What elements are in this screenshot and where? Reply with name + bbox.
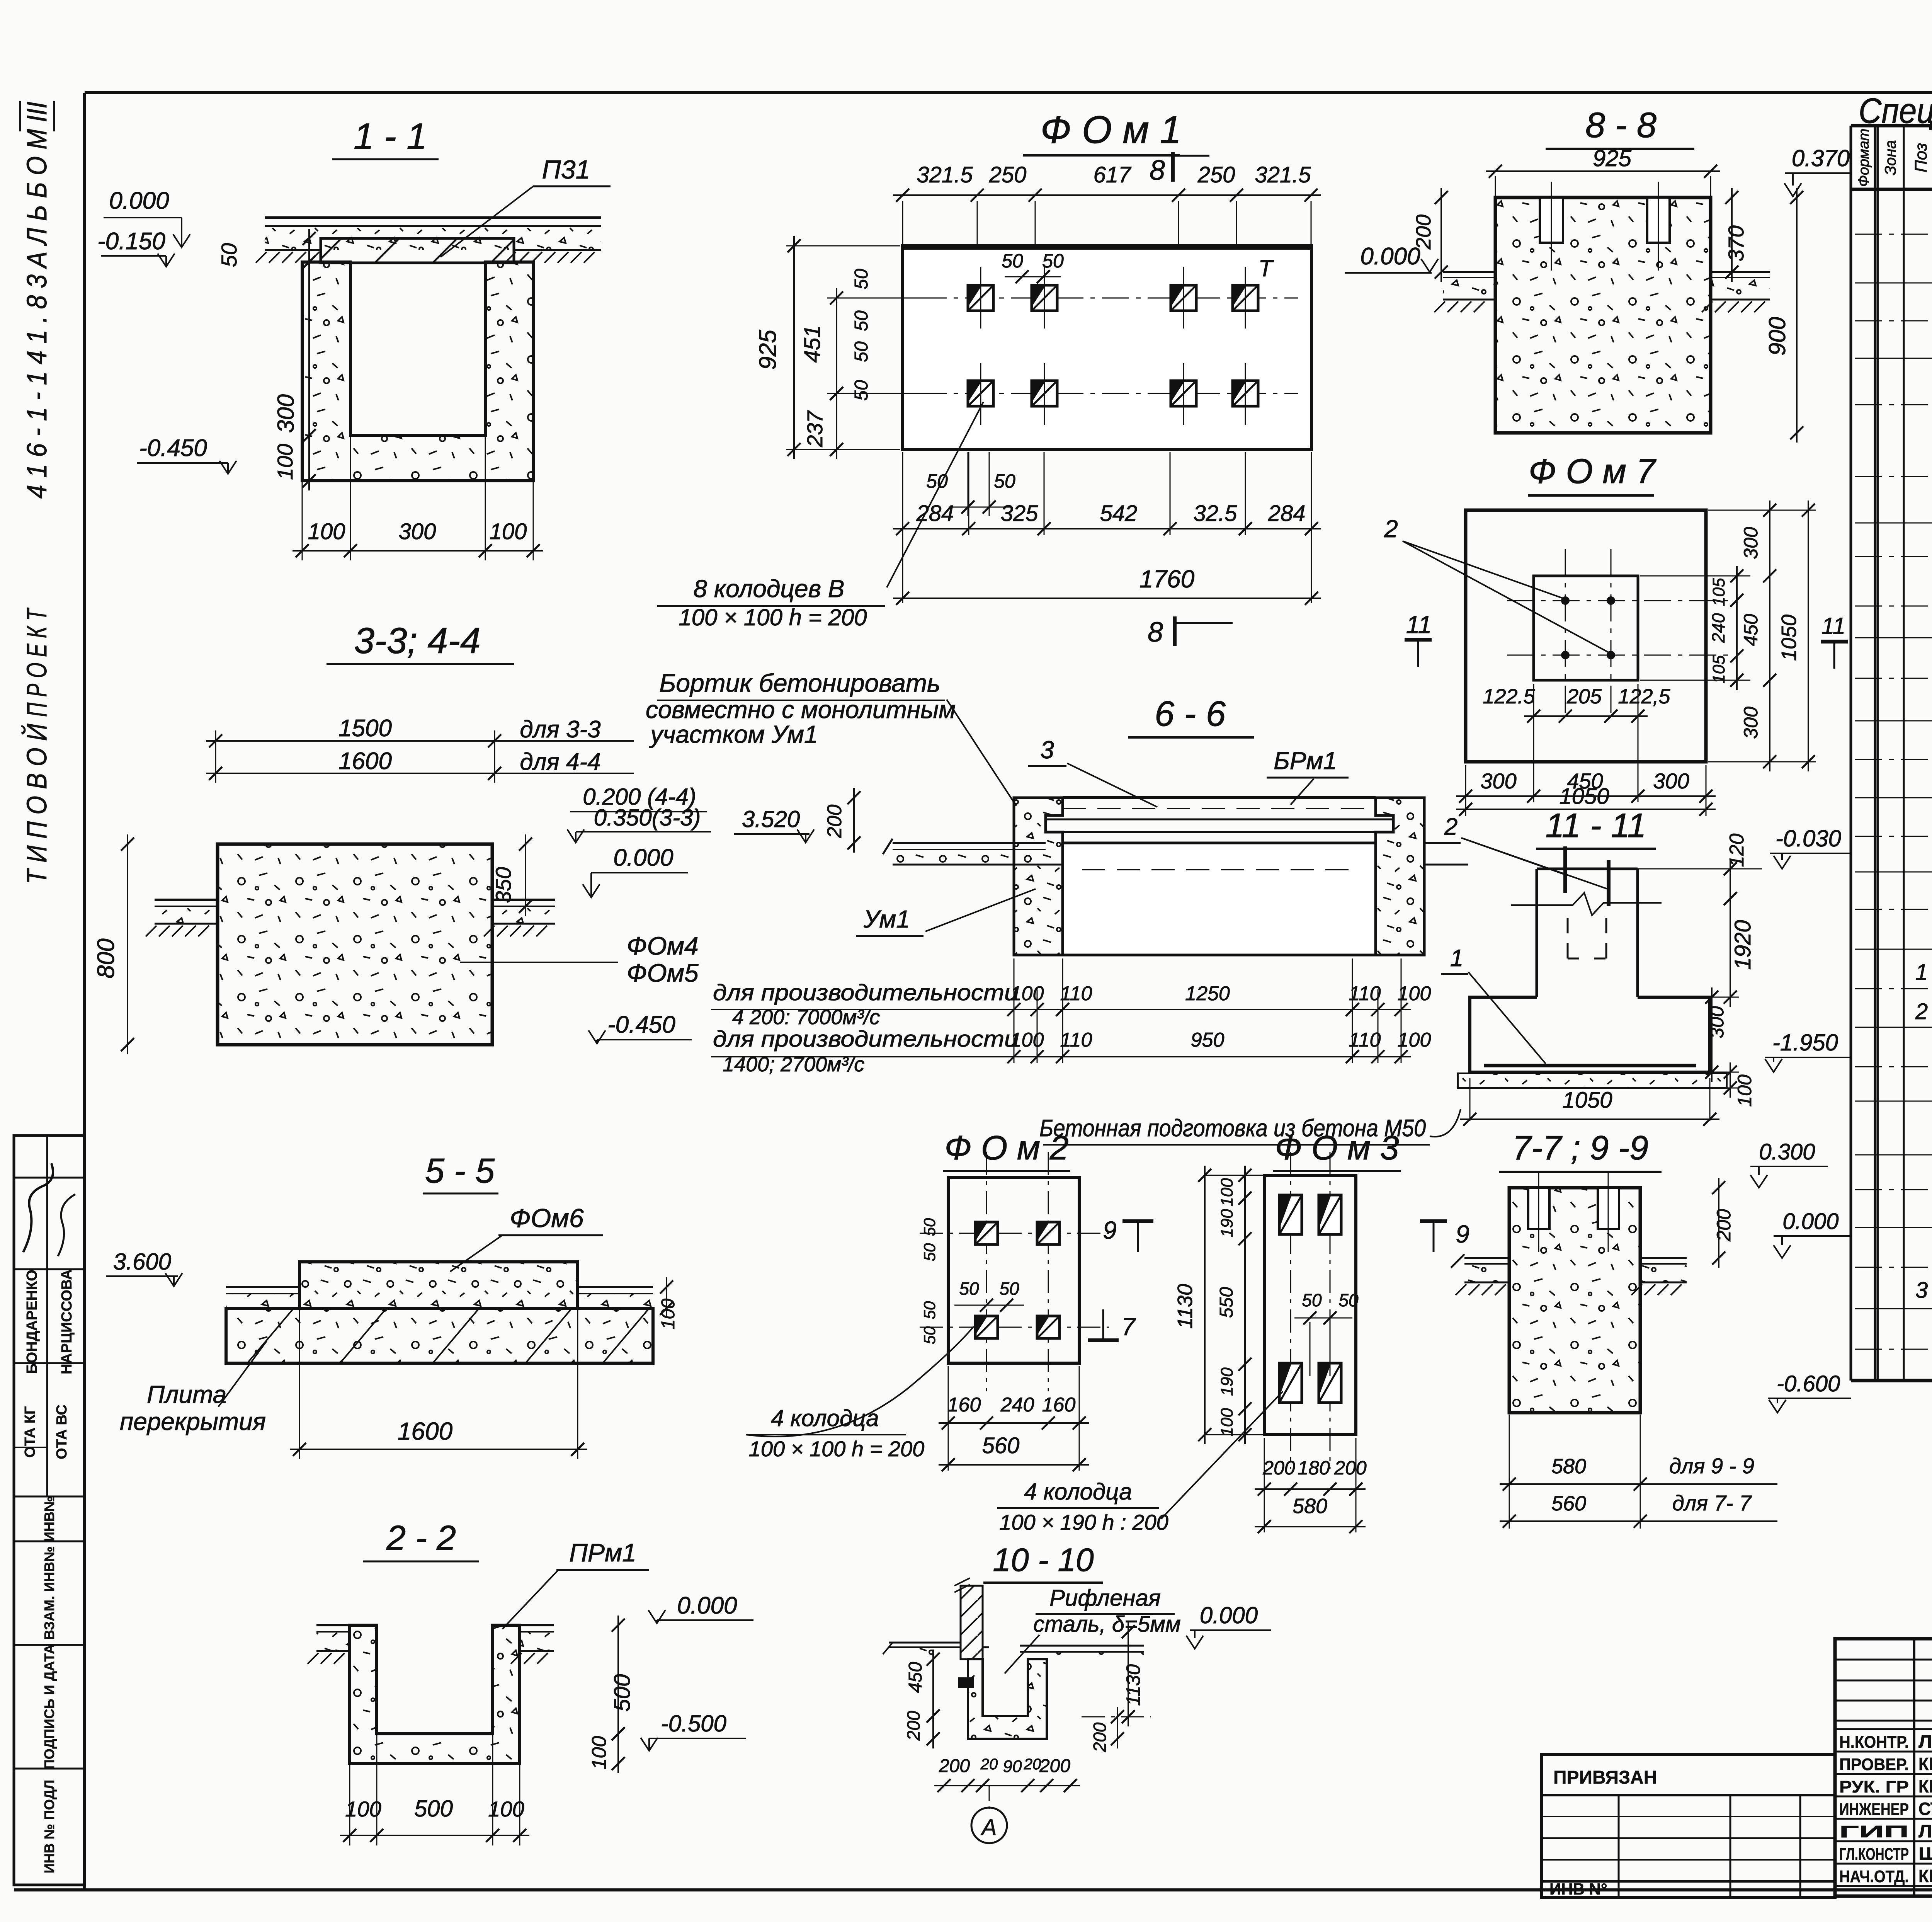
svg-text:1: 1: [1915, 960, 1928, 985]
svg-text:участком Ум1: участком Ум1: [649, 720, 818, 748]
svg-text:100 × 100 h = 200: 100 × 100 h = 200: [679, 604, 867, 630]
svg-text:ЛОУЦКЕР: ЛОУЦКЕР: [1918, 1821, 1932, 1841]
svg-text:ИНВ№: ИНВ№: [41, 1496, 57, 1542]
svg-text:ПРИВЯЗАН: ПРИВЯЗАН: [1553, 1767, 1657, 1788]
svg-text:200: 200: [1090, 1722, 1110, 1752]
svg-text:ОТА КГ: ОТА КГ: [22, 1406, 38, 1457]
svg-text:20: 20: [980, 1756, 998, 1773]
svg-text:300: 300: [1740, 706, 1762, 739]
svg-text:7-7 ; 9 -9: 7-7 ; 9 -9: [1512, 1129, 1648, 1167]
svg-text:Рифленая: Рифленая: [1049, 1585, 1161, 1611]
svg-text:ИНВ № ПОДЛ: ИНВ № ПОДЛ: [41, 1780, 57, 1873]
svg-text:250: 250: [989, 162, 1027, 187]
svg-text:300: 300: [399, 519, 436, 544]
svg-text:Зона: Зона: [1882, 140, 1899, 175]
svg-text:для производительности: для производительности: [713, 1027, 1018, 1052]
svg-text:284: 284: [1268, 501, 1306, 526]
svg-text:3-3; 4-4: 3-3; 4-4: [354, 620, 480, 661]
svg-text:617: 617: [1094, 162, 1132, 187]
svg-text:9: 9: [1103, 1216, 1117, 1244]
svg-text:500: 500: [610, 1674, 635, 1712]
svg-text:3: 3: [1040, 736, 1054, 764]
svg-text:8: 8: [1148, 617, 1163, 648]
svg-text:Ф О м 3: Ф О м 3: [1275, 1129, 1399, 1167]
svg-text:Н.КОНТР.: Н.КОНТР.: [1839, 1733, 1909, 1752]
svg-text:ФОм4: ФОм4: [627, 931, 699, 960]
svg-text:-0.450: -0.450: [607, 1011, 675, 1038]
svg-text:Плита: Плита: [147, 1381, 226, 1408]
svg-text:50: 50: [920, 1243, 939, 1261]
svg-text:560: 560: [982, 1433, 1020, 1458]
svg-text:160: 160: [1042, 1394, 1076, 1416]
svg-text:20: 20: [1024, 1756, 1041, 1773]
svg-text:240: 240: [1000, 1394, 1034, 1416]
svg-text:240: 240: [1708, 613, 1728, 643]
svg-text:3.600: 3.600: [113, 1249, 171, 1275]
svg-text:300: 300: [273, 394, 299, 433]
svg-text:925: 925: [755, 330, 781, 370]
svg-text:1600: 1600: [398, 1417, 453, 1445]
svg-text:сталь, δ=5мм: сталь, δ=5мм: [1033, 1612, 1181, 1637]
svg-text:НАЧ.ОТД.: НАЧ.ОТД.: [1839, 1867, 1909, 1886]
svg-text:500: 500: [414, 1796, 453, 1822]
svg-text:200: 200: [939, 1756, 970, 1776]
svg-text:4 1 6 - 1 - 1 4 1 . 8 3: 4 1 6 - 1 - 1 4 1 . 8 3: [22, 274, 53, 499]
svg-text:50: 50: [994, 470, 1015, 492]
svg-text:2 - 2: 2 - 2: [386, 1519, 456, 1558]
svg-text:ШАПИРО: ШАПИРО: [1918, 1844, 1932, 1864]
svg-text:200: 200: [1713, 1209, 1735, 1242]
svg-text:2: 2: [1384, 515, 1398, 543]
svg-text:100 × 100 h = 200: 100 × 100 h = 200: [749, 1437, 925, 1461]
svg-text:120: 120: [1726, 834, 1748, 867]
svg-text:100: 100: [345, 1797, 381, 1821]
svg-text:0.000: 0.000: [613, 844, 673, 871]
svg-text:для 9 - 9: для 9 - 9: [1669, 1454, 1754, 1478]
svg-text:Т И П О В О Й: Т И П О В О Й: [21, 724, 53, 884]
svg-text:100 × 190 h : 200: 100 × 190 h : 200: [999, 1510, 1168, 1534]
svg-text:1 - 1: 1 - 1: [354, 116, 427, 157]
svg-text:НАРЦИССОВА: НАРЦИССОВА: [59, 1269, 75, 1374]
svg-text:50: 50: [920, 1301, 939, 1319]
svg-text:ПРОВЕР.: ПРОВЕР.: [1839, 1755, 1909, 1774]
svg-text:325: 325: [1001, 501, 1039, 526]
svg-text:50: 50: [1002, 250, 1023, 272]
svg-text:950: 950: [1191, 1029, 1225, 1051]
svg-text:200: 200: [1039, 1756, 1070, 1776]
svg-text:ВЗАМ. ИНВ№: ВЗАМ. ИНВ№: [41, 1546, 57, 1640]
svg-text:ФОм5: ФОм5: [627, 958, 699, 987]
svg-text:800: 800: [93, 938, 119, 978]
svg-text:300: 300: [1740, 527, 1762, 559]
svg-text:4 колодца: 4 колодца: [771, 1405, 879, 1431]
svg-text:РУК. ГР: РУК. ГР: [1839, 1777, 1909, 1796]
svg-text:300: 300: [1480, 769, 1516, 793]
svg-text:190: 190: [1218, 1367, 1236, 1396]
svg-text:0.000: 0.000: [677, 1592, 737, 1619]
svg-text:90: 90: [1003, 1757, 1022, 1776]
svg-text:370: 370: [1724, 225, 1748, 261]
svg-text:0.300: 0.300: [1759, 1139, 1815, 1164]
svg-text:284: 284: [916, 501, 954, 526]
svg-text:А: А: [981, 1815, 997, 1840]
svg-text:ГИП: ГИП: [1839, 1822, 1909, 1841]
svg-text:8: 8: [1150, 155, 1165, 186]
svg-text:50: 50: [999, 1278, 1019, 1299]
svg-text:32.5: 32.5: [1194, 501, 1238, 526]
svg-text:1600: 1600: [338, 748, 392, 775]
svg-text:ИНЖЕНЕР: ИНЖЕНЕР: [1839, 1800, 1909, 1819]
svg-text:50: 50: [851, 269, 872, 289]
svg-text:100: 100: [1010, 982, 1044, 1005]
svg-text:200: 200: [1412, 215, 1435, 250]
svg-text:50: 50: [217, 243, 241, 267]
svg-text:100: 100: [1218, 1408, 1236, 1437]
svg-text:для 7- 7: для 7- 7: [1672, 1491, 1752, 1515]
svg-text:КРАСНОВА: КРАСНОВА: [1918, 1776, 1932, 1796]
svg-text:ПОДПИСЬ И ДАТА: ПОДПИСЬ И ДАТА: [41, 1644, 57, 1769]
svg-text:560: 560: [1551, 1492, 1586, 1515]
svg-text:50: 50: [926, 470, 948, 492]
svg-text:550: 550: [1216, 1287, 1237, 1318]
svg-text:250: 250: [1197, 162, 1235, 187]
svg-text:ПРм1: ПРм1: [569, 1538, 636, 1567]
svg-text:Бортик бетонировать: Бортик бетонировать: [659, 669, 940, 697]
svg-text:-0.030: -0.030: [1776, 826, 1841, 851]
svg-text:-0.450: -0.450: [139, 435, 207, 461]
svg-text:П Р О Е К Т: П Р О Е К Т: [22, 607, 53, 717]
svg-text:1050: 1050: [1777, 615, 1801, 661]
svg-text:321.5: 321.5: [917, 162, 973, 187]
svg-text:205: 205: [1566, 685, 1602, 708]
svg-text:1050: 1050: [1559, 784, 1609, 809]
svg-text:совместно с монолитным: совместно с монолитным: [646, 696, 956, 724]
svg-text:3.520: 3.520: [742, 806, 800, 832]
svg-text:11: 11: [1821, 613, 1845, 639]
svg-text:КРАСНОВА: КРАСНОВА: [1918, 1754, 1932, 1774]
svg-text:100: 100: [1010, 1029, 1044, 1051]
svg-text:451: 451: [800, 325, 825, 363]
svg-text:0.000: 0.000: [1200, 1602, 1258, 1628]
svg-text:Ф О м 2: Ф О м 2: [944, 1129, 1068, 1167]
svg-text:100: 100: [273, 444, 297, 480]
svg-text:1130: 1130: [1122, 1664, 1144, 1706]
svg-text:0.350(3-3): 0.350(3-3): [594, 805, 701, 831]
svg-text:Ум1: Ум1: [863, 905, 910, 933]
svg-text:190: 190: [1218, 1209, 1236, 1238]
svg-text:-0.500: -0.500: [661, 1711, 726, 1736]
svg-text:110: 110: [1060, 1029, 1092, 1051]
svg-text:300: 300: [1653, 769, 1689, 793]
svg-text:100: 100: [488, 1797, 524, 1821]
svg-text:580: 580: [1293, 1495, 1327, 1518]
svg-text:100: 100: [1734, 1074, 1755, 1107]
svg-text:0.000: 0.000: [1360, 243, 1420, 270]
svg-text:Формат: Формат: [1856, 129, 1872, 187]
svg-text:110: 110: [1060, 982, 1092, 1005]
svg-text:100: 100: [1218, 1178, 1236, 1207]
svg-text:105: 105: [1709, 578, 1728, 606]
svg-text:50: 50: [1042, 250, 1064, 272]
svg-text:ГЛ.КОНСТР: ГЛ.КОНСТР: [1839, 1845, 1909, 1864]
svg-text:300: 300: [1706, 1006, 1728, 1038]
svg-text:105: 105: [1709, 655, 1728, 684]
svg-text:8 - 8: 8 - 8: [1585, 106, 1656, 145]
svg-text:122,5: 122,5: [1618, 685, 1670, 708]
svg-text:0.000: 0.000: [109, 187, 169, 214]
svg-text:5 - 5: 5 - 5: [425, 1152, 495, 1190]
svg-text:100: 100: [308, 519, 345, 544]
svg-text:1760: 1760: [1139, 565, 1195, 593]
svg-text:925: 925: [1593, 145, 1632, 171]
svg-text:110: 110: [1349, 982, 1381, 1005]
svg-text:237: 237: [803, 410, 827, 447]
svg-text:1500: 1500: [338, 715, 392, 742]
svg-text:200: 200: [1334, 1457, 1367, 1479]
svg-text:для производительности: для производительности: [713, 980, 1018, 1005]
svg-text:БРм1: БРм1: [1274, 747, 1337, 775]
svg-text:СТРИГИНА: СТРИГИНА: [1918, 1799, 1932, 1819]
svg-text:50: 50: [1302, 1290, 1322, 1310]
svg-text:1920: 1920: [1730, 920, 1755, 970]
svg-text:2: 2: [1915, 999, 1928, 1024]
svg-text:9: 9: [1456, 1220, 1469, 1248]
svg-text:1: 1: [1450, 945, 1463, 972]
svg-text:450: 450: [1740, 614, 1762, 646]
svg-text:11 - 11: 11 - 11: [1546, 806, 1646, 844]
svg-text:122.5: 122.5: [1483, 685, 1535, 708]
svg-text:200: 200: [1262, 1457, 1295, 1479]
svg-text:50: 50: [851, 310, 872, 331]
svg-text:перекрытия: перекрытия: [120, 1408, 266, 1435]
svg-text:-1.950: -1.950: [1772, 1030, 1838, 1055]
svg-text:БОНДАРЕНКО: БОНДАРЕНКО: [24, 1270, 40, 1374]
svg-text:0.370: 0.370: [1792, 145, 1850, 171]
svg-text:Ф О м 7: Ф О м 7: [1529, 452, 1656, 491]
svg-text:50: 50: [959, 1278, 979, 1299]
svg-text:100: 100: [1398, 982, 1431, 1005]
svg-text:160: 160: [947, 1394, 981, 1416]
svg-text:321.5: 321.5: [1255, 162, 1311, 187]
svg-text:П31: П31: [542, 155, 590, 184]
svg-text:ОТА ВС: ОТА ВС: [54, 1404, 70, 1459]
svg-text:1130: 1130: [1173, 1284, 1197, 1329]
svg-text:Поз: Поз: [1912, 143, 1930, 172]
svg-text:200: 200: [823, 805, 846, 839]
svg-text:1050: 1050: [1562, 1088, 1612, 1113]
svg-text:1250: 1250: [1185, 982, 1230, 1005]
svg-text:3: 3: [1915, 1278, 1928, 1303]
svg-text:7: 7: [1121, 1313, 1136, 1341]
svg-text:100: 100: [490, 519, 527, 544]
svg-text:580: 580: [1551, 1455, 1586, 1478]
svg-text:Т: Т: [1259, 255, 1274, 281]
svg-text:-0.600: -0.600: [1777, 1371, 1840, 1396]
svg-text:50: 50: [920, 1326, 939, 1344]
svg-text:для 4-4: для 4-4: [520, 749, 600, 775]
svg-text:50: 50: [1338, 1290, 1359, 1310]
svg-text:100: 100: [588, 1736, 611, 1770]
svg-text:8 колодцев В: 8 колодцев В: [694, 575, 845, 603]
svg-text:50: 50: [851, 380, 872, 401]
svg-text:А Л Ь Б О М III: А Л Ь Б О М III: [22, 102, 53, 269]
svg-text:4 колодца: 4 колодца: [1024, 1479, 1132, 1505]
svg-text:900: 900: [1764, 317, 1790, 356]
svg-text:ЛОУЦКЕР: ЛОУЦКЕР: [1918, 1731, 1932, 1752]
svg-text:2: 2: [1444, 814, 1458, 840]
svg-text:ИНВ N°: ИНВ N°: [1549, 1880, 1607, 1898]
svg-text:0.000: 0.000: [1782, 1209, 1838, 1234]
svg-text:542: 542: [1100, 501, 1138, 526]
svg-text:6 - 6: 6 - 6: [1155, 694, 1226, 734]
svg-text:180: 180: [1298, 1457, 1330, 1479]
svg-text:10 - 10: 10 - 10: [993, 1542, 1094, 1578]
svg-text:ФОм6: ФОм6: [510, 1204, 584, 1233]
svg-text:50: 50: [851, 341, 872, 362]
svg-text:11: 11: [1406, 611, 1432, 638]
svg-text:КРАСАВИН: КРАСАВИН: [1918, 1866, 1932, 1886]
svg-text:для 3-3: для 3-3: [520, 716, 600, 743]
svg-text:110: 110: [1349, 1029, 1381, 1051]
svg-text:350: 350: [491, 867, 515, 903]
svg-text:200: 200: [903, 1711, 923, 1741]
svg-text:-0.150: -0.150: [97, 228, 165, 255]
svg-text:Ф О м 1: Ф О м 1: [1041, 108, 1182, 152]
svg-text:50: 50: [920, 1218, 939, 1236]
svg-text:450: 450: [905, 1662, 926, 1693]
svg-text:100: 100: [1398, 1029, 1431, 1051]
